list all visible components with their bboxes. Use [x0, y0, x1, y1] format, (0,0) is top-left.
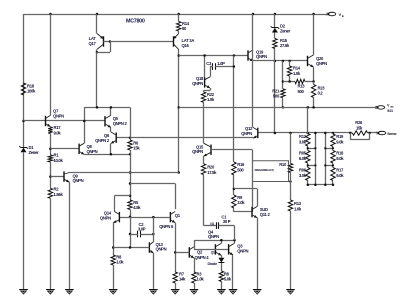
svg-text:1.0k: 1.0k [293, 71, 301, 76]
svg-text:Diode: Diode [208, 261, 218, 266]
svg-text:QNPN: QNPN [87, 149, 98, 154]
svg-text:3.0k: 3.0k [299, 173, 307, 178]
svg-text:30 P: 30 P [223, 219, 231, 224]
svg-text:500: 500 [298, 89, 305, 94]
svg-text:6.0k: 6.0k [299, 156, 307, 161]
svg-text:9.0k: 9.0k [336, 156, 344, 161]
svg-text:QNPN: QNPN [208, 234, 219, 239]
svg-text:3.0P: 3.0P [138, 227, 146, 232]
svg-text:Q11 2: Q11 2 [260, 212, 271, 217]
svg-text:N1: N1 [210, 222, 214, 226]
svg-text:QNPN: QNPN [256, 54, 267, 59]
svg-text:QNPN: QNPN [237, 248, 248, 253]
svg-text:QNPN 6: QNPN 6 [159, 224, 174, 229]
svg-text:10.0k: 10.0k [54, 158, 64, 163]
svg-text:500: 500 [237, 167, 244, 172]
svg-text:15k: 15k [356, 126, 363, 131]
svg-text:5.01: 5.01 [387, 109, 393, 113]
svg-text:5.0k: 5.0k [224, 277, 232, 282]
svg-text:3.0k: 3.0k [299, 139, 307, 144]
svg-text:QNPN: QNPN [73, 178, 84, 183]
svg-text:500: 500 [273, 94, 280, 99]
svg-text:14k: 14k [179, 277, 186, 282]
svg-text:Q17: Q17 [88, 41, 96, 46]
svg-text:3.0k: 3.0k [237, 200, 245, 205]
svg-text:Sense: Sense [387, 132, 396, 136]
svg-text:9.0k: 9.0k [336, 139, 344, 144]
svg-text:334Ω-(3316Ω ACT): 334Ω-(3316Ω ACT) [254, 168, 273, 172]
svg-text:QNPN: QNPN [156, 247, 167, 252]
svg-text:1.0k: 1.0k [197, 277, 205, 282]
svg-text:Zener: Zener [280, 29, 291, 34]
svg-text:17.5k: 17.5k [207, 170, 217, 175]
svg-text:QNPN 4: QNPN 4 [195, 255, 210, 260]
svg-text:Q10: Q10 [211, 251, 217, 255]
svg-text:9.0k: 9.0k [336, 173, 344, 178]
svg-text:27.5k: 27.5k [280, 43, 290, 48]
svg-text:QNPN 2: QNPN 2 [95, 138, 110, 143]
svg-text:100k: 100k [27, 89, 36, 94]
svg-text:QNPN: QNPN [192, 81, 203, 86]
svg-text:QNPN: QNPN [53, 114, 64, 119]
svg-text:QNPN: QNPN [316, 61, 327, 66]
svg-text:Zener: Zener [29, 150, 40, 155]
svg-text:R26: R26 [355, 120, 363, 125]
svg-text:QNPN: QNPN [241, 131, 252, 136]
svg-text:1.0k: 1.0k [294, 206, 302, 211]
svg-text:9.0k: 9.0k [54, 130, 62, 135]
svg-text:QNPN: QNPN [192, 149, 203, 154]
svg-text:Q16: Q16 [182, 43, 190, 48]
svg-text:QNPN 2: QNPN 2 [113, 121, 128, 126]
svg-text:1.0k: 1.0k [116, 260, 124, 265]
svg-text:1.0k: 1.0k [207, 97, 215, 102]
svg-text:1.0P: 1.0P [217, 61, 225, 66]
svg-text:QNPN: QNPN [100, 216, 111, 221]
svg-text:15k: 15k [133, 146, 140, 151]
svg-text:R10: R10 [279, 162, 287, 167]
svg-text:MC7800: MC7800 [126, 19, 145, 25]
svg-text:4.5k: 4.5k [133, 205, 141, 210]
svg-text:1.56k: 1.56k [54, 192, 64, 197]
